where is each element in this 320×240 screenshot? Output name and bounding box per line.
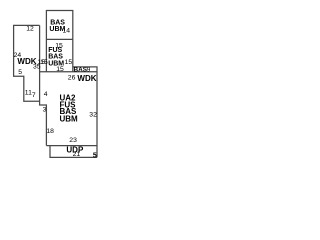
svg-text:23: 23 — [69, 137, 77, 144]
svg-text:5: 5 — [18, 69, 22, 76]
svg-text:21: 21 — [73, 151, 81, 158]
svg-text:15: 15 — [65, 59, 73, 66]
svg-text:BAS: BAS — [74, 67, 88, 74]
svg-text:18: 18 — [46, 128, 54, 135]
svg-text:WDK: WDK — [77, 74, 96, 83]
svg-text:15: 15 — [37, 59, 45, 66]
svg-text:7: 7 — [32, 92, 36, 99]
svg-text:15: 15 — [56, 66, 64, 73]
svg-text:3: 3 — [43, 107, 47, 114]
svg-text:14: 14 — [63, 27, 71, 34]
svg-text:12: 12 — [26, 25, 34, 32]
svg-text:UBM: UBM — [60, 115, 79, 124]
svg-text:26: 26 — [68, 75, 76, 82]
svg-text:BAS: BAS — [48, 54, 63, 61]
svg-text:5: 5 — [93, 152, 97, 159]
svg-text:9: 9 — [87, 67, 91, 74]
svg-text:32: 32 — [89, 112, 97, 119]
svg-text:4: 4 — [44, 91, 48, 98]
